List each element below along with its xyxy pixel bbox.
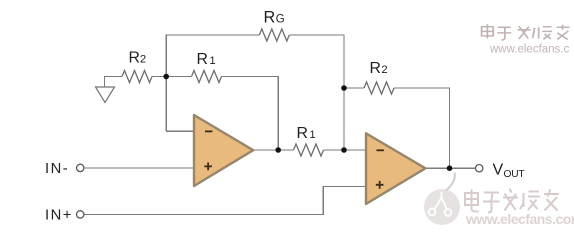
wire: op-amp1 minus input from left vertical [166,130,194,132]
wire: node D to R2 right [344,87,364,89]
wire: ground stub to R2 [105,77,123,88]
wire: vertical from RG corner through node D to node C [343,82,345,150]
svg-text:R1: R1 [297,125,316,142]
watermark bottom right: circular pcb logo [424,173,460,226]
svg-text:www.elecfans.com: www.elecfans.com [465,211,574,227]
wire: R2 to node A [152,76,166,78]
op-amp U2 [366,133,425,204]
terminal IN+ circle [77,211,84,218]
svg-text:IN+: IN+ [45,208,73,224]
terminal IN- circle [77,164,84,171]
node B junction dot (op-amp1 output) [275,147,281,153]
wire: op-amp2 output to VOUT terminal [426,167,476,169]
svg-text:R1: R1 [197,51,216,68]
wire: IN+ run to op-amp2 plus input [84,187,366,215]
svg-text:OUT: OUT [504,169,525,180]
ground [96,87,115,103]
node D junction dot (R2 tap) [341,85,347,91]
wire: R1 mid to node C and op-amp2 minus input [324,149,366,151]
svg-text:www.elecfans.c: www.elecfans.c [489,44,570,56]
watermark top right: elecfans chinese text [482,24,570,40]
wire: node A to R1 [166,76,191,78]
svg-text:RG: RG [264,9,285,27]
watermark bottom right: chinese characters dian zi fa shao you [465,189,559,213]
resistor RG zigzag [259,29,289,41]
resistor R2 right zigzag [364,82,394,94]
node A junction dot [163,74,169,80]
wire: RG top loop from left vertical to right vertical [166,35,344,131]
terminal VOUT circle [476,165,483,172]
node C junction dot (op-amp2 minus) [341,147,347,153]
svg-text:R2: R2 [370,60,388,77]
resistor R1 left zigzag [192,71,222,83]
wire: IN- to op-amp1 plus input [84,167,194,169]
op-amp U1 [194,115,253,186]
svg-text:V: V [493,161,504,178]
svg-text:IN-: IN- [45,161,69,177]
resistor R2 left zigzag [122,71,152,83]
wire: R1 right to feedback drop into op-amp1 output [222,77,279,151]
node E junction dot (output) [447,165,453,171]
wire: R2 right to output vertical [394,88,450,168]
resistor R1 mid zigzag [294,144,324,156]
svg-text:R2: R2 [129,49,147,66]
wire: op-amp1 output to node B [253,149,293,151]
